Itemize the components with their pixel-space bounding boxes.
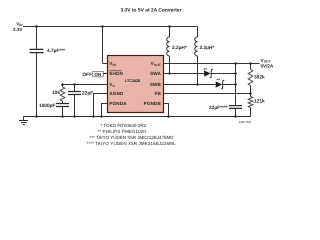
svg-text:*** TAIYO YUDEN X5R JMK212BJ47: *** TAIYO YUDEN X5R JMK212BJ475MD [90,135,175,140]
svg-text:4.7µF***: 4.7µF*** [47,48,65,54]
svg-text:**** TAIYO YUDEN X5R JMK316BJ2: **** TAIYO YUDEN X5R JMK316BJ226ML [87,141,176,146]
svg-text:22µF****: 22µF**** [209,105,228,111]
svg-text:SWB: SWB [150,82,162,87]
svg-text:2.2µH*: 2.2µH* [172,45,187,51]
svg-text:**: ** [217,78,221,83]
svg-text:FB: FB [155,91,162,96]
svg-text:3.3V: 3.3V [13,27,23,32]
svg-text:3.3V to 5V at 2A Converter: 3.3V to 5V at 2A Converter [121,8,182,14]
svg-text:302k: 302k [254,75,265,81]
svg-text:SWA: SWA [150,71,161,76]
svg-text:5V/2A: 5V/2A [261,64,274,69]
svg-text:VIN: VIN [109,61,116,67]
svg-text:1000pF: 1000pF [39,103,56,109]
svg-text:** PHILIPS PMEG1020: ** PHILIPS PMEG1020 [98,129,147,134]
svg-text:VC: VC [109,82,115,88]
svg-text:10k: 10k [52,90,60,96]
svg-text:SHDN: SHDN [109,71,123,76]
svg-text:**: ** [204,67,208,72]
svg-text:3428 TA01: 3428 TA01 [239,121,252,124]
svg-text:121k: 121k [254,99,265,105]
svg-text:OFF: OFF [82,72,92,78]
svg-text:VOUT: VOUT [151,61,161,67]
svg-text:2.2µH*: 2.2µH* [200,45,215,51]
svg-text:22pF: 22pF [82,91,93,97]
svg-text:PGNDB: PGNDB [144,101,162,106]
svg-text:ON: ON [94,72,102,77]
svg-text:LTC3428: LTC3428 [125,78,141,83]
svg-text:AGND: AGND [109,91,124,96]
svg-text:* TOKO FDV0630-2R2: * TOKO FDV0630-2R2 [101,123,147,128]
svg-text:PGNDA: PGNDA [109,101,127,106]
